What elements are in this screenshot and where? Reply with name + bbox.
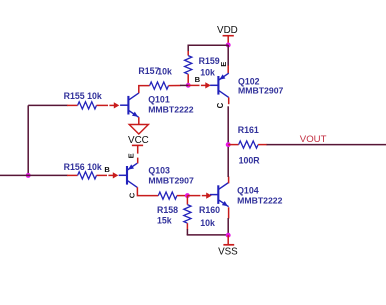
power VDD <box>217 25 238 45</box>
wire Q104 emitter lead <box>228 207 230 218</box>
wire Q101 emitter lead <box>138 117 140 124</box>
svg-text:C: C <box>127 192 136 198</box>
wire node B1 to arrow <box>188 84 199 86</box>
transistor Q103 <box>119 163 138 187</box>
wire input top <box>28 104 67 106</box>
junction VOUT node <box>226 142 231 147</box>
svg-text:E: E <box>127 153 136 158</box>
junction node B2 <box>185 193 190 198</box>
svg-text:R160: R160 <box>199 205 220 215</box>
resistor R156 <box>67 172 107 179</box>
arrow into Q103 base <box>108 174 113 176</box>
svg-text:B: B <box>104 165 110 174</box>
svg-text:B: B <box>195 75 201 84</box>
junction node B1 <box>186 83 191 88</box>
svg-text:MMBT2222: MMBT2222 <box>237 195 283 205</box>
resistor R155 <box>67 102 108 109</box>
svg-text:C: C <box>216 102 225 108</box>
svg-text:R161: R161 <box>238 125 259 135</box>
wire input bottom <box>0 174 68 176</box>
resistor R158 <box>137 187 187 199</box>
wire Q102 emitter lead <box>227 66 229 74</box>
resistor R157 <box>139 82 188 93</box>
resistor R160 <box>184 196 191 235</box>
arrow into Q102 base <box>201 84 206 86</box>
power VCC bar port <box>132 145 143 153</box>
svg-text:R155 10k: R155 10k <box>64 91 102 101</box>
wire input rail vertical <box>27 105 29 175</box>
wire VCC to Q103 emitter <box>137 158 139 164</box>
svg-text:Q104: Q104 <box>237 186 259 196</box>
transistor Q102 <box>210 73 229 97</box>
junction input node <box>26 173 31 178</box>
svg-text:VCC: VCC <box>128 135 149 146</box>
svg-text:10k: 10k <box>200 218 215 228</box>
wire Q104 emitter to VSS <box>227 218 229 235</box>
wire Q104 collector to VOUT node <box>227 145 229 177</box>
wire bottom rail <box>187 234 228 236</box>
svg-text:R158: R158 <box>157 205 178 215</box>
svg-text:R156 10k: R156 10k <box>64 162 102 172</box>
svg-text:100R: 100R <box>239 155 261 165</box>
wire VOUT <box>267 144 386 146</box>
svg-text:10k: 10k <box>157 66 172 76</box>
wire node B2 to arrow <box>187 195 200 197</box>
transistor Q104 <box>210 183 229 207</box>
wire Q102 collector to VOUT node <box>227 106 229 144</box>
svg-text:Q101: Q101 <box>148 94 170 104</box>
svg-text:MMBT2907: MMBT2907 <box>238 86 284 96</box>
svg-text:10k: 10k <box>200 68 215 78</box>
wire Q104 collector lead <box>228 177 230 184</box>
svg-text:15k: 15k <box>157 215 172 225</box>
svg-text:Q103: Q103 <box>148 166 170 176</box>
wire VDD to Q102 emitter <box>227 45 229 66</box>
power VSS <box>223 235 234 245</box>
svg-text:VSS: VSS <box>218 247 238 258</box>
svg-text:MMBT2222: MMBT2222 <box>148 105 194 115</box>
svg-text:R159: R159 <box>199 56 220 66</box>
power VCC port triangle <box>129 125 148 135</box>
wire VDD rail <box>188 44 228 46</box>
wire R159 top <box>187 45 189 52</box>
svg-text:VOUT: VOUT <box>300 134 327 145</box>
resistor R159 <box>185 51 192 85</box>
arrow into Q101 base <box>109 104 114 106</box>
resistor R161 <box>228 141 267 148</box>
svg-text:MMBT2907: MMBT2907 <box>148 175 194 185</box>
svg-text:VDD: VDD <box>217 25 238 36</box>
svg-text:E: E <box>219 62 228 67</box>
transistor Q101 <box>120 93 139 117</box>
wire Q102 collector lead <box>228 97 230 104</box>
arrow into Q104 base <box>202 195 207 197</box>
junction VDD node <box>226 43 231 48</box>
junction VSS node <box>226 233 231 238</box>
